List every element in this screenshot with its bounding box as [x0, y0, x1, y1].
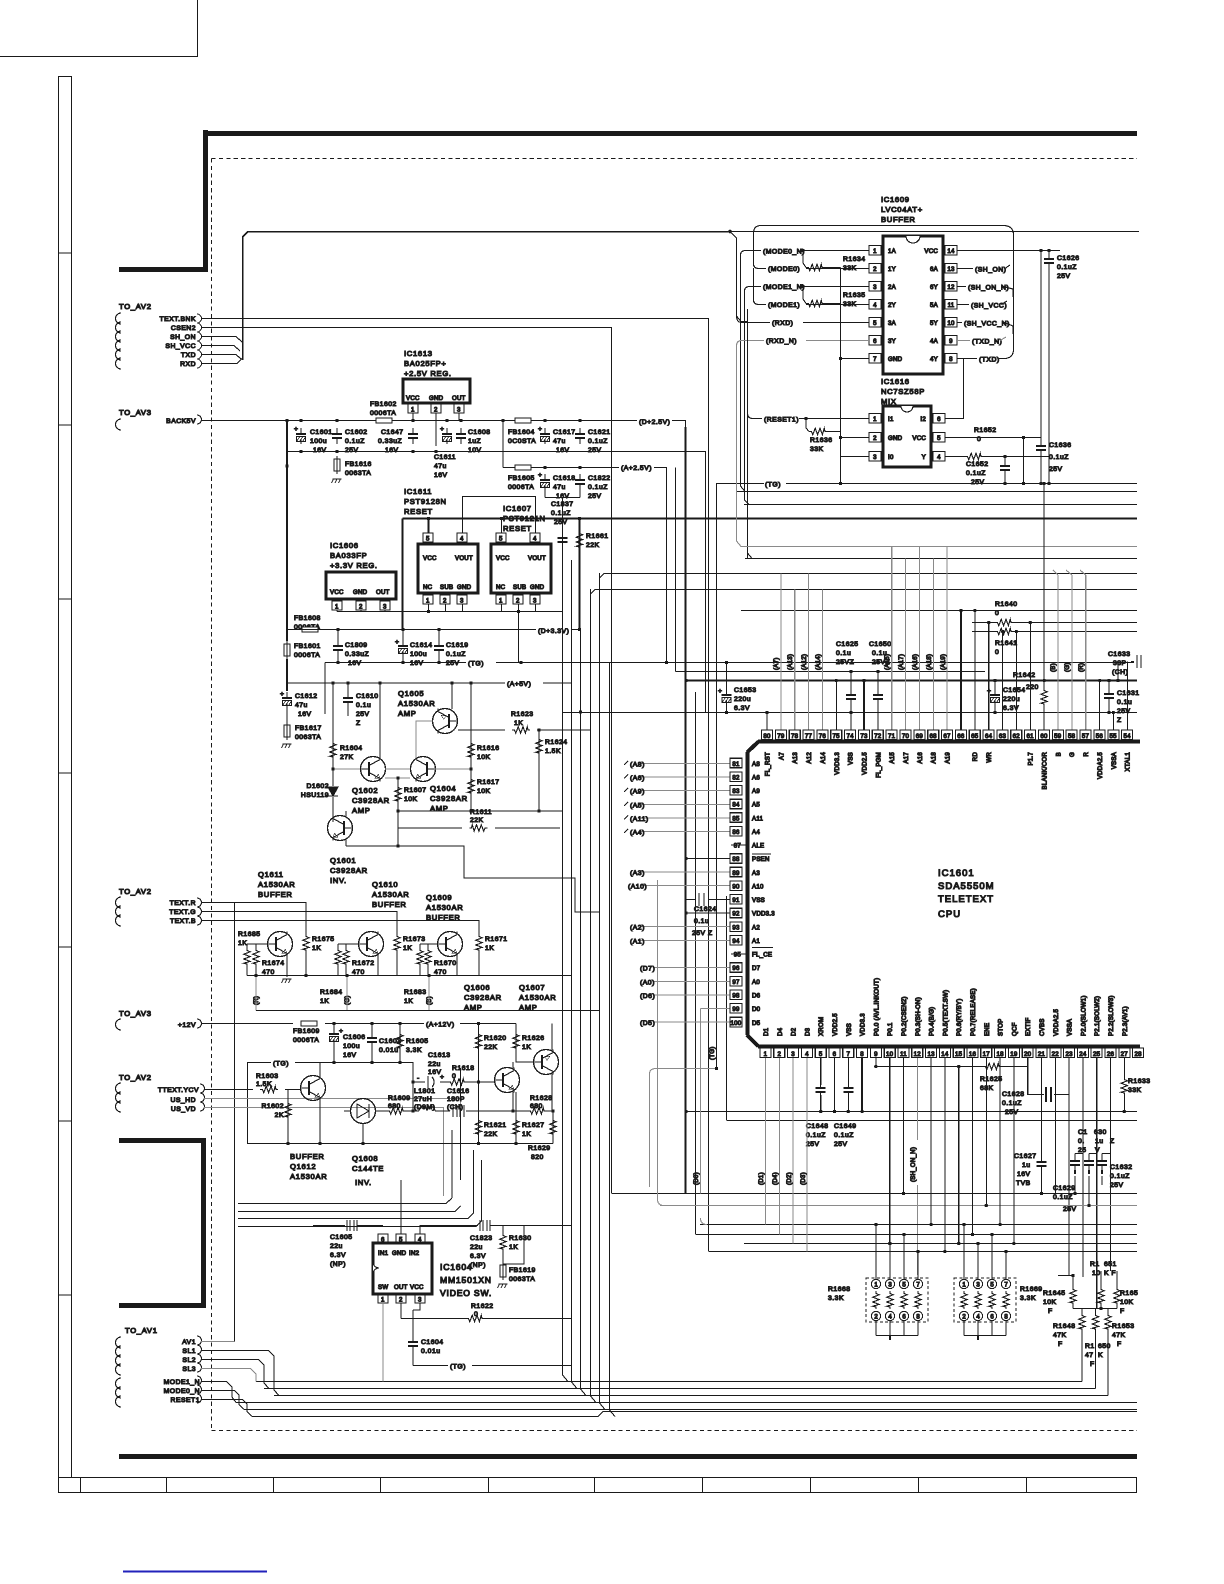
svg-text:SH_ON: SH_ON: [170, 334, 196, 341]
wire Q mid leads: [512, 1062, 514, 1111]
svg-text:25V: 25V: [1057, 273, 1071, 280]
svg-text:F: F: [1090, 1361, 1095, 1368]
svg-text:2A: 2A: [888, 284, 897, 291]
svg-text:1: 1: [381, 1297, 385, 1304]
svg-text:FB1609: FB1609: [293, 1028, 320, 1035]
svg-text:NC: NC: [423, 584, 433, 591]
svg-text:16V: 16V: [343, 1052, 357, 1059]
svg-text:GND: GND: [353, 589, 368, 596]
svg-text:99: 99: [732, 1006, 740, 1013]
wire vertical thick D+2.5V: [685, 427, 687, 1194]
svg-text:V: V: [1095, 1147, 1100, 1154]
svg-text:4: 4: [937, 454, 941, 461]
svg-text:1uZ: 1uZ: [468, 438, 481, 445]
wire TG drop left: [324, 663, 326, 715]
capacitor C1603: [367, 1032, 377, 1048]
svg-text:TEXT.B: TEXT.B: [170, 918, 196, 925]
svg-text:P0.5(TEXT.SW): P0.5(TEXT.SW): [942, 990, 949, 1036]
svg-text:F: F: [1048, 1308, 1053, 1315]
svg-text:A0: A0: [752, 979, 760, 986]
IC1609 pin boxes right: [945, 246, 957, 256]
wire left vertical x460 drop: [460, 1068, 462, 1180]
wire row2 caps bottom: [545, 490, 580, 548]
wire TEXT.G: [201, 912, 397, 935]
transistor Q mid (507,1080): [495, 1068, 520, 1093]
svg-text:XROM: XROM: [818, 1017, 825, 1036]
resistor R1625: [876, 1058, 1028, 1067]
svg-text:5: 5: [937, 435, 941, 442]
wire bus v3: [274, 630, 1108, 1396]
svg-text:Q1610: Q1610: [372, 880, 398, 889]
svg-text:VCC: VCC: [330, 589, 344, 596]
svg-text:R1661: R1661: [586, 533, 609, 540]
svg-text:19: 19: [1010, 1051, 1018, 1058]
svg-text:9: 9: [874, 1051, 878, 1058]
svg-text:63: 63: [999, 733, 1007, 740]
svg-text:1.5K: 1.5K: [256, 1081, 272, 1088]
node (D+3.3V) rail: [287, 629, 536, 631]
svg-text:SW: SW: [378, 1284, 388, 1291]
svg-text:(SH_ON_N): (SH_ON_N): [968, 285, 1009, 292]
svg-text:D4: D4: [777, 1027, 784, 1036]
transistor Q1612: [301, 1076, 326, 1101]
svg-text:I1: I1: [888, 416, 894, 423]
resistor R1636: [806, 419, 809, 432]
row 2 rail (A+2.5V): [503, 421, 619, 468]
capacitor C1616 180P: [435, 1110, 516, 1112]
svg-text:G: G: [1069, 752, 1076, 757]
ferrite FB1617 + ground: [286, 708, 288, 723]
resistor R1627: [515, 1092, 517, 1144]
svg-text:BUFFER: BUFFER: [258, 890, 293, 899]
svg-text:10: 10: [1092, 1270, 1101, 1277]
svg-text:TXD: TXD: [181, 352, 196, 359]
svg-text:A1: A1: [752, 938, 760, 945]
wire Q1610/Q1609 emitters: [378, 956, 457, 976]
svg-text:C1601: C1601: [310, 429, 333, 436]
svg-text:3: 3: [457, 407, 461, 414]
svg-text:MM1501XN: MM1501XN: [440, 1275, 492, 1285]
svg-text:(A12): (A12): [801, 654, 808, 670]
svg-text:P2.3(AV1): P2.3(AV1): [1122, 1006, 1129, 1036]
capacitor C1618: [540, 474, 550, 490]
svg-text:NC7SZ58P: NC7SZ58P: [881, 387, 925, 396]
svg-text:6.3V: 6.3V: [330, 1252, 346, 1259]
svg-text:A1530AR: A1530AR: [258, 880, 295, 889]
svg-text:25V: 25V: [1117, 708, 1131, 715]
svg-text:10K: 10K: [404, 796, 418, 803]
svg-text:2Y: 2Y: [888, 302, 896, 309]
svg-text:25V: 25V: [356, 711, 370, 718]
capacitor C1649: [847, 1058, 849, 1112]
svg-text:VCC: VCC: [423, 555, 437, 562]
svg-text:OUT: OUT: [452, 395, 466, 402]
svg-text:56: 56: [1096, 733, 1104, 740]
svg-text:B: B: [1055, 752, 1062, 756]
resistor R1671: [476, 934, 482, 952]
svg-text:IN1: IN1: [378, 1250, 389, 1257]
svg-text:SH_VCC: SH_VCC: [165, 343, 196, 350]
svg-text:C1624: C1624: [694, 906, 717, 913]
svg-text:R1623: R1623: [511, 711, 534, 718]
capacitor C1606: [329, 1028, 339, 1044]
left pin stubs A8..A4: [640, 764, 730, 832]
svg-text:3.3K: 3.3K: [406, 1047, 422, 1054]
svg-text:C1653: C1653: [734, 687, 757, 694]
svg-text:84: 84: [732, 802, 740, 809]
svg-text:1K: 1K: [320, 998, 329, 1005]
wire pin5 up: [400, 1180, 402, 1234]
svg-text:(TG): (TG): [765, 482, 781, 489]
svg-text:650: 650: [1098, 1343, 1111, 1350]
zone ticks: [58, 253, 71, 1295]
svg-text:73: 73: [860, 733, 868, 740]
svg-text:3: 3: [533, 598, 537, 605]
svg-text:17: 17: [983, 1051, 991, 1058]
svg-text:0.33uZ: 0.33uZ: [378, 438, 402, 445]
wire y846: [398, 846, 600, 912]
svg-text:1u: 1u: [1022, 1162, 1031, 1169]
wire pin5 IC1607: [501, 519, 503, 534]
svg-text:1K: 1K: [509, 1244, 518, 1251]
wire BACK5V rail: [201, 420, 637, 422]
svg-text:A18: A18: [931, 752, 938, 764]
wire corner from v4 to rail589: [591, 590, 1138, 595]
svg-text:P0.4(B/G): P0.4(B/G): [929, 1007, 936, 1036]
svg-text:0.1u: 0.1u: [694, 918, 709, 925]
svg-text:A1530AR: A1530AR: [290, 1172, 327, 1181]
svg-text:22u: 22u: [330, 1243, 343, 1250]
capacitors C1630 cluster: [1075, 1058, 1111, 1309]
svg-text:STOP: STOP: [998, 1019, 1005, 1036]
svg-text:89: 89: [732, 870, 740, 877]
svg-text:(TG): (TG): [709, 1046, 716, 1060]
svg-text:(A13): (A13): [787, 654, 794, 670]
svg-text:0.01u: 0.01u: [421, 1348, 441, 1355]
svg-text:2: 2: [434, 407, 438, 414]
svg-text:651: 651: [1104, 1261, 1117, 1268]
svg-text:0.1u: 0.1u: [356, 702, 371, 709]
svg-text:(A2): (A2): [630, 925, 645, 932]
svg-text:1K: 1K: [238, 940, 247, 947]
svg-text:27: 27: [1121, 1051, 1129, 1058]
svg-text:GND: GND: [457, 584, 472, 591]
svg-text:P2.2(SLOW3): P2.2(SLOW3): [1108, 995, 1115, 1036]
svg-text:16V: 16V: [410, 660, 424, 667]
svg-text:C1625: C1625: [836, 641, 859, 648]
wire bus v6: [252, 662, 1137, 1417]
svg-text:6.3V: 6.3V: [470, 1253, 486, 1260]
svg-text:22K: 22K: [484, 1131, 498, 1138]
wire corner 1224 rail: [701, 1218, 708, 1225]
svg-text:10K: 10K: [1043, 1299, 1057, 1306]
wire SL3: [201, 1369, 256, 1382]
resistor R1626: [515, 1024, 517, 1051]
svg-text:6: 6: [990, 1315, 994, 1321]
wire pin1 down: [382, 1303, 384, 1382]
svg-text:6Y: 6Y: [930, 284, 938, 291]
svg-text:AMP: AMP: [352, 806, 371, 815]
resistor R1624: [538, 730, 540, 811]
svg-text:(D3): (D3): [800, 1172, 807, 1185]
svg-text:+: +: [294, 426, 298, 433]
wire branch down to RXD stub: [730, 232, 748, 322]
resistor R1616: [470, 683, 472, 769]
capacitor C1822: [575, 474, 585, 490]
wire SL2: [201, 1360, 269, 1389]
cpu top pin row: [762, 730, 773, 740]
svg-text:C1650: C1650: [869, 641, 892, 648]
svg-text:28: 28: [1134, 1051, 1142, 1058]
wire bottom pins to gnd rail y616: [337, 604, 563, 663]
svg-text:C1636: C1636: [1049, 442, 1072, 449]
capacitor C1647: [408, 428, 418, 444]
resistor R1675: [303, 934, 309, 952]
svg-text:0.1uZ: 0.1uZ: [1110, 1173, 1130, 1180]
svg-text:25V: 25V: [446, 660, 460, 667]
svg-text:(SH_ON): (SH_ON): [975, 267, 1006, 274]
resistor R1609: [387, 1108, 405, 1114]
svg-text:(A14): (A14): [815, 654, 822, 670]
wire rail y491: [737, 491, 1137, 493]
svg-text:62: 62: [1013, 733, 1021, 740]
svg-text:VDD2.5: VDD2.5: [862, 752, 869, 775]
svg-text:220u: 220u: [1003, 696, 1020, 703]
svg-text:(SH_VCC_N): (SH_VCC_N): [964, 321, 1010, 328]
svg-text:0.1uZ: 0.1uZ: [1049, 454, 1069, 461]
wire corner from v5 to rail573: [600, 574, 1138, 579]
wire Q1601 leads: [333, 811, 398, 846]
svg-text:(A10): (A10): [628, 884, 647, 891]
svg-text:4: 4: [873, 302, 877, 309]
svg-text:14: 14: [947, 248, 955, 255]
svg-text:4: 4: [418, 1237, 422, 1244]
svg-text:0.1uZ: 0.1uZ: [588, 438, 608, 445]
svg-text:6.3V: 6.3V: [734, 705, 750, 712]
svg-text:R1641: R1641: [995, 640, 1018, 647]
svg-text:680: 680: [388, 1103, 401, 1110]
svg-text:9: 9: [949, 338, 953, 345]
svg-text:C1626: C1626: [1057, 255, 1080, 262]
wire TEXT.BNK long: [201, 319, 709, 1252]
svg-text:(D2): (D2): [786, 1172, 793, 1185]
svg-text:8: 8: [949, 356, 953, 363]
resistor R1673: [394, 934, 400, 952]
svg-text:NC: NC: [496, 584, 506, 591]
svg-text:6: 6: [381, 1237, 385, 1244]
svg-text:(TG): (TG): [273, 1061, 289, 1068]
svg-text:33K: 33K: [843, 301, 857, 308]
svg-text:Z: Z: [1117, 717, 1122, 724]
svg-text:A14: A14: [820, 752, 827, 764]
svg-text:25V Z: 25V Z: [692, 930, 713, 937]
gray address drops A15 A17 A16 A18 A19: [892, 547, 947, 731]
svg-text:5: 5: [499, 536, 503, 543]
wire MODE0_N: [201, 1391, 244, 1410]
svg-text:0063TA: 0063TA: [345, 470, 371, 477]
wire TEXT.R: [201, 903, 306, 935]
svg-text:3: 3: [873, 284, 877, 291]
svg-text:16V: 16V: [1017, 1171, 1031, 1178]
title strip: [58, 1477, 1137, 1493]
svg-text:AMP: AMP: [519, 1003, 538, 1012]
svg-text:PST9128N: PST9128N: [404, 497, 447, 506]
svg-text:P0.2(CSEN2): P0.2(CSEN2): [901, 996, 908, 1036]
svg-text:TEXT.R: TEXT.R: [170, 900, 196, 907]
svg-text:C1604: C1604: [421, 1339, 444, 1346]
svg-text:60: 60: [1040, 733, 1048, 740]
svg-text:0: 0: [995, 649, 999, 656]
svg-text:16V: 16V: [434, 472, 448, 479]
svg-text:R1624: R1624: [545, 739, 568, 746]
junction dots: [801, 249, 1050, 485]
svg-text:VCC: VCC: [912, 435, 926, 442]
svg-text:RESET: RESET: [503, 524, 532, 533]
transistor Q1602: [361, 757, 386, 782]
svg-text:0: 0: [977, 436, 981, 443]
svg-text:4: 4: [533, 536, 537, 543]
svg-text:0.1uZ: 0.1uZ: [834, 1132, 854, 1139]
svg-text:Q1605: Q1605: [398, 689, 424, 698]
svg-text:C1605: C1605: [330, 1234, 353, 1241]
svg-text:6: 6: [902, 1315, 906, 1321]
svg-text:D1602: D1602: [306, 783, 329, 790]
svg-text:2: 2: [399, 1297, 403, 1304]
capacitor C1628: [1028, 1058, 1069, 1095]
svg-text:14: 14: [941, 1051, 949, 1058]
svg-text:1K: 1K: [485, 945, 494, 952]
cpu IC1601 outline: [758, 740, 1140, 744]
svg-text:2: 2: [873, 435, 877, 442]
svg-text:(A3): (A3): [630, 870, 645, 877]
svg-text:2: 2: [777, 1051, 781, 1058]
svg-text:Q1607: Q1607: [519, 983, 545, 992]
svg-text:LVC04AT+: LVC04AT+: [881, 205, 923, 214]
svg-text:0.1uZ: 0.1uZ: [1053, 1194, 1073, 1201]
wire CSEN2 long: [201, 328, 612, 1194]
svg-text:3: 3: [873, 454, 877, 461]
svg-text:220u: 220u: [734, 696, 751, 703]
svg-text:D7: D7: [752, 965, 761, 972]
wire cap row bottom rail: [287, 451, 612, 453]
resistor R1642: [1043, 484, 1045, 689]
svg-text:100: 100: [731, 1020, 742, 1027]
transistor Q1601: [328, 816, 353, 841]
svg-text:2: 2: [359, 604, 363, 611]
wire vertical x726 TG: [717, 483, 727, 1120]
svg-text:(D9M): (D9M): [414, 1104, 435, 1111]
pin drops from rails: [767, 713, 1113, 731]
svg-text:2: 2: [962, 1315, 966, 1321]
wire pin13 drop: [930, 1058, 932, 1225]
svg-text:Q1604: Q1604: [430, 784, 456, 793]
svg-text:0.33uZ: 0.33uZ: [345, 651, 369, 658]
svg-text:+2.5V REG.: +2.5V REG.: [404, 369, 452, 378]
svg-text:R1604: R1604: [340, 745, 363, 752]
svg-text:25V: 25V: [806, 1141, 820, 1148]
svg-text:L1801: L1801: [414, 1088, 435, 1095]
svg-text:5: 5: [902, 1283, 906, 1289]
svg-text:A3: A3: [752, 870, 760, 877]
svg-text:P1.7: P1.7: [1028, 752, 1035, 766]
svg-text:A1530AR: A1530AR: [372, 890, 409, 899]
svg-text:R1607: R1607: [404, 787, 427, 794]
svg-text:10: 10: [886, 1051, 894, 1058]
svg-text:TELETEXT: TELETEXT: [938, 894, 994, 905]
svg-text:1: 1: [874, 1283, 878, 1289]
svg-text:P0.0 (AVL.INKOUT): P0.0 (AVL.INKOUT): [873, 978, 880, 1036]
wire bus v2: [264, 560, 1096, 1389]
svg-text:5: 5: [990, 1283, 994, 1289]
svg-text:Q1609: Q1609: [426, 893, 452, 902]
wire MODE1_N: [201, 1382, 236, 1403]
svg-text:1u: 1u: [1095, 1138, 1104, 1145]
svg-text:RD: RD: [972, 752, 979, 762]
svg-text:R1616: R1616: [477, 745, 500, 752]
wire bus v1: [256, 548, 1082, 1382]
svg-text:+12V: +12V: [178, 1022, 196, 1029]
resistor R1605: [399, 1024, 401, 1063]
svg-text:(A15): (A15): [884, 654, 891, 670]
svg-text:R1648: R1648: [1053, 1323, 1076, 1330]
svg-text:2: 2: [516, 598, 520, 605]
svg-text:(A+12V): (A+12V): [426, 1022, 455, 1029]
node (SH_ON_N) vertical: [916, 1058, 918, 1276]
resistor R1672 pair: [338, 944, 359, 948]
svg-text:R1645: R1645: [1043, 1290, 1066, 1297]
wire pin92 VDD3.3: [686, 912, 730, 914]
capacitor C1602: [332, 428, 342, 444]
svg-text:VSS: VSS: [848, 752, 855, 765]
svg-text:R1609: R1609: [388, 1095, 411, 1102]
wire corner C1633: [1117, 662, 1119, 681]
svg-text:IC1606: IC1606: [330, 541, 359, 550]
resistor R1641 on rail y631: [972, 631, 1137, 633]
svg-text:5Y: 5Y: [930, 320, 938, 327]
junction dots: [684, 482, 1119, 915]
thick border top: [119, 267, 205, 272]
svg-text:(MODE1): (MODE1): [768, 302, 800, 309]
svg-text:58: 58: [1068, 733, 1076, 740]
svg-text:A1530AR: A1530AR: [426, 903, 463, 912]
svg-text:78: 78: [791, 733, 799, 740]
left stubs A3 A10: [640, 872, 730, 886]
svg-text:47K: 47K: [1053, 1332, 1067, 1339]
svg-text:0.1u: 0.1u: [836, 650, 851, 657]
svg-text:A1530AR: A1530AR: [398, 699, 435, 708]
svg-text:13: 13: [947, 266, 955, 273]
capacitor C1626: [1048, 251, 1050, 255]
capacitor C1652: [1004, 457, 1006, 462]
wire Q1611 emitter + ground: [286, 956, 288, 977]
svg-text:82: 82: [732, 774, 740, 781]
svg-text:BLANK/COR: BLANK/COR: [1042, 752, 1049, 790]
svg-text:820: 820: [531, 1154, 544, 1161]
svg-text:VDD3.3: VDD3.3: [860, 1013, 867, 1036]
svg-text:GND: GND: [392, 1250, 407, 1257]
capacitor C1617: [540, 428, 550, 444]
wire TEXT.B: [201, 921, 479, 935]
svg-text:27uH: 27uH: [414, 1096, 432, 1103]
svg-text:C1648: C1648: [806, 1123, 829, 1130]
svg-text:C1837: C1837: [551, 501, 574, 508]
svg-text:A12: A12: [806, 752, 813, 764]
svg-text:R1685: R1685: [238, 931, 261, 938]
svg-text:1K: 1K: [522, 1131, 531, 1138]
svg-text:A2: A2: [752, 924, 760, 931]
svg-text:0.01u: 0.01u: [379, 1047, 399, 1054]
wire pins 6 8 down: [834, 1058, 836, 1112]
